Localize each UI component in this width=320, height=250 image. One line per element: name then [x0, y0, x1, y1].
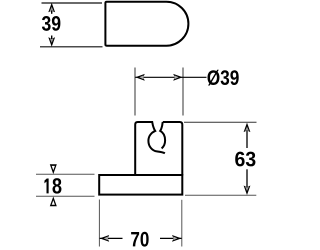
dimension 18 arrow down	[50, 164, 57, 174]
dimension D39 arrow left	[135, 74, 145, 81]
dimension 39 label	[42, 16, 61, 31]
clip body column with keyhole slot	[135, 122, 165, 176]
dimension D39 arrow right	[173, 74, 183, 81]
dimension 63 arrow up	[244, 123, 251, 133]
base plate	[99, 175, 182, 195]
dimension 39 extension line bottom	[40, 46, 103, 48]
dimension 70 line left segment	[100, 237, 123, 239]
dimension 63 label	[235, 152, 255, 167]
dimension 70 arrow right	[172, 235, 182, 242]
clip body right side	[160, 122, 182, 176]
dimension D39 extension line right	[182, 68, 184, 116]
dimension 18 extension line bottom	[36, 195, 95, 197]
dimension 39 extension line top	[42, 2, 103, 4]
dimension D39 line with leader	[135, 76, 206, 78]
dimension 70 label	[131, 232, 149, 247]
dimension 18 label	[44, 178, 61, 194]
dimension 39 arrow up	[48, 3, 55, 13]
dimension 70 extension line right	[181, 200, 183, 247]
dimension 18 extension line top	[36, 173, 95, 175]
dimension D39 label	[208, 70, 239, 86]
knob side view (capsule)	[105, 2, 188, 46]
dimension 63 extension line bottom	[185, 194, 256, 196]
dimension 18 arrow up	[50, 197, 57, 207]
dimension 70 arrow left	[100, 235, 110, 242]
dimension 39 arrow down	[48, 37, 55, 47]
dimension 70 extension line left	[98, 200, 100, 247]
dimension D39 extension line left	[134, 68, 136, 116]
dimension 63 arrow down	[244, 186, 251, 196]
dimension 70 line right segment	[160, 237, 182, 239]
dimension 63 extension line top	[184, 121, 257, 123]
